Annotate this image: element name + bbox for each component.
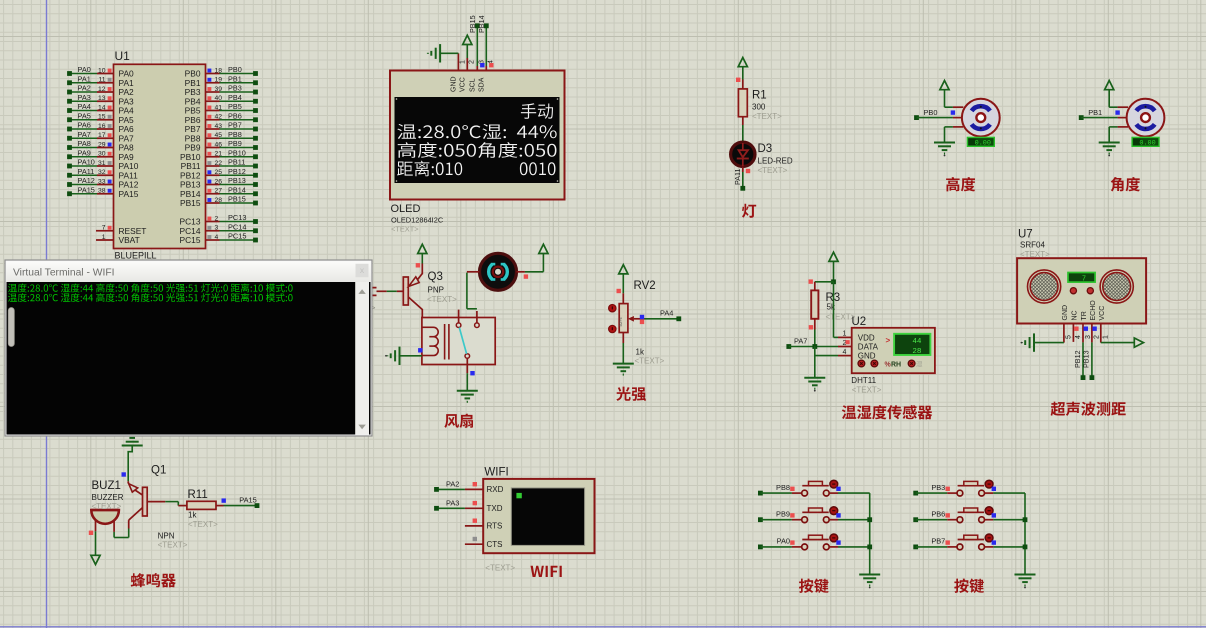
svg-text:14: 14 [98, 104, 106, 111]
resistor R11 [187, 501, 216, 509]
Q1 emitter arrow [129, 484, 143, 495]
svg-text:17: 17 [98, 132, 106, 139]
label U1 [115, 49, 131, 63]
svg-text:PA1: PA1 [78, 74, 91, 83]
label Q1 [151, 465, 166, 477]
label RV2 1k [636, 348, 645, 357]
U7 pin GND (5) [1062, 305, 1073, 339]
U1 pin PA9 (30) [67, 148, 134, 162]
svg-text:PB10: PB10 [228, 148, 246, 157]
wire relay coil to ground [400, 348, 423, 356]
svg-text:22: 22 [215, 160, 223, 167]
svg-text:PA3: PA3 [446, 499, 459, 508]
motor rpm display [967, 137, 994, 147]
svg-text:PA12: PA12 [78, 176, 95, 185]
U1 pin PC13 (2) [180, 213, 258, 227]
label BUZZER [92, 493, 124, 502]
wire gnd to Q1 emitter [122, 446, 133, 484]
virtual terminal close button [356, 264, 369, 278]
relay coil [422, 327, 438, 355]
svg-text:RXD: RXD [487, 485, 504, 494]
virtual terminal window frame [5, 260, 372, 436]
svg-text:2: 2 [469, 60, 476, 64]
svg-text:45: 45 [215, 132, 223, 139]
svg-text:PA4: PA4 [660, 309, 673, 318]
svg-text:7: 7 [1082, 275, 1086, 283]
U2 display [886, 334, 931, 356]
label DHT11 [851, 376, 876, 385]
label 按键 [954, 579, 984, 594]
terminal text line2 [8, 293, 293, 302]
svg-text:WIFI: WIFI [484, 467, 508, 479]
terminal left tab [8, 308, 14, 347]
ground U2 [804, 378, 825, 392]
svg-text:32: 32 [98, 169, 106, 176]
resistor R3 [809, 282, 819, 330]
ground relay coil [385, 347, 399, 365]
label WIFI red [531, 566, 562, 577]
U2 pin VDD (1) [838, 331, 875, 343]
resistor R1 [738, 89, 747, 117]
terminal text line1 [8, 284, 293, 293]
svg-text:PA15: PA15 [78, 185, 95, 194]
motor power arrow [1105, 81, 1128, 108]
power junction [831, 279, 836, 284]
svg-text:42: 42 [215, 114, 223, 121]
label R3 5k [827, 303, 836, 312]
buzzer BUZ1 [91, 510, 119, 524]
svg-text:38: 38 [98, 188, 106, 195]
motor body 角度 [1127, 99, 1165, 137]
svg-text:PB15: PB15 [468, 15, 477, 33]
U1 pin PA1 (11) [67, 74, 134, 88]
label NPN [158, 532, 175, 541]
svg-text:U2: U2 [852, 316, 867, 328]
label R1 [752, 90, 767, 102]
svg-text:PC13: PC13 [228, 213, 247, 222]
U1 pin PB9 (46) [185, 139, 258, 153]
ground RV2 [613, 364, 634, 375]
oled screen [395, 97, 560, 183]
push button PB6 [913, 507, 1025, 523]
wire PA7 [786, 337, 838, 349]
transistor Q1 bar [143, 487, 148, 516]
U1 pin PA10 (31) [67, 158, 139, 172]
U1 pin PA3 (13) [67, 93, 134, 107]
oled pin4 SDA wire PB14 [477, 15, 495, 92]
U1 pin PA8 (29) [67, 139, 134, 153]
push button PB9 [758, 507, 870, 523]
label R11 1k [188, 511, 197, 520]
push button PB7 [913, 534, 1025, 550]
svg-text:27: 27 [215, 188, 223, 195]
label 按键 [799, 579, 829, 594]
ground fan relay [457, 391, 478, 402]
label R3 TEXT [826, 313, 856, 322]
U1 pin PB7 (43) [185, 121, 258, 135]
svg-text:PB7: PB7 [228, 121, 242, 130]
oled text line1 手动 [521, 103, 553, 119]
svg-text:PB14: PB14 [228, 185, 246, 194]
svg-text:PB1: PB1 [1088, 108, 1102, 117]
svg-text:VBAT: VBAT [119, 235, 140, 245]
svg-text:3: 3 [1085, 335, 1092, 339]
svg-text:4: 4 [215, 234, 219, 241]
svg-text:NPN: NPN [158, 532, 175, 541]
virtual terminal scrollbar [356, 282, 370, 435]
motor power arrow [940, 81, 963, 108]
svg-text:28: 28 [215, 197, 223, 204]
svg-text:GND: GND [1062, 305, 1069, 321]
svg-text:<TEXT>: <TEXT> [391, 225, 419, 234]
wifi pin TXD [434, 499, 503, 514]
relay switch arm [459, 328, 466, 354]
button bus wire [867, 493, 872, 574]
U1 pin PA0 (10) [67, 65, 134, 79]
svg-text:PA0: PA0 [777, 537, 790, 546]
svg-text:LED-RED: LED-RED [758, 157, 793, 166]
svg-text:PNP: PNP [428, 286, 444, 295]
U7 pin VCC (1) [1099, 306, 1110, 339]
svg-text:21: 21 [215, 151, 223, 158]
label 温湿度传感器 [842, 405, 933, 419]
svg-text:CTS: CTS [487, 540, 503, 549]
svg-text:PA5: PA5 [78, 111, 91, 120]
RV2 bottom wire [622, 333, 624, 364]
svg-text:2: 2 [1094, 335, 1101, 339]
svg-text:PA4: PA4 [78, 102, 91, 111]
label RV2 TEXT [635, 357, 665, 366]
svg-text:NC: NC [1072, 310, 1079, 320]
label U2 TEXT [852, 386, 882, 395]
ground motor [1099, 143, 1120, 157]
svg-text:2: 2 [215, 215, 219, 222]
svg-text:<TEXT>: <TEXT> [852, 386, 882, 395]
svg-text:PA15: PA15 [239, 496, 257, 505]
U1 pin PB12 (25) [180, 167, 258, 181]
label 风扇 [444, 414, 473, 428]
U1 pin PB4 (40) [185, 93, 258, 107]
wire junction to R3 [809, 279, 834, 283]
RV2 wiper + wire PA4 [628, 309, 681, 325]
svg-text:<TEXT>: <TEXT> [485, 564, 515, 573]
U7 right transducer [1100, 270, 1133, 303]
push button PB8 [758, 480, 870, 496]
ground buzzer top [122, 433, 143, 446]
U7 display [1068, 273, 1095, 284]
svg-text:SDA: SDA [479, 77, 486, 92]
push button PB3 [913, 480, 1025, 496]
svg-text:13: 13 [98, 95, 106, 102]
U1 pin PA15 (38) [67, 185, 139, 199]
svg-text:PB6: PB6 [228, 111, 242, 120]
oled text line2 温:28.0℃湿: 44% [397, 124, 556, 139]
dht U2 body [852, 328, 935, 373]
U1 pin PA11 (32) [67, 167, 138, 181]
svg-text:PB9: PB9 [776, 510, 790, 519]
svg-text:BUZZER: BUZZER [92, 493, 124, 502]
motor body 高度 [962, 99, 1000, 137]
svg-text:1: 1 [843, 331, 847, 338]
U1 pin PB6 (42) [185, 111, 258, 125]
svg-text:PA2: PA2 [446, 480, 459, 489]
svg-text:PB12: PB12 [228, 167, 246, 176]
oled pin1 GND stub [451, 53, 467, 92]
svg-text:GND: GND [858, 352, 876, 361]
ground buttons [859, 575, 880, 589]
svg-text:4: 4 [843, 349, 847, 356]
U1 pin PB1 (19) [185, 74, 258, 88]
svg-text:43: 43 [215, 123, 223, 130]
U1 pin PB14 (27) [180, 185, 258, 199]
oled text line3 高度:050角度:050 [398, 142, 557, 158]
svg-text:PA10: PA10 [78, 158, 95, 167]
svg-text:PB8: PB8 [228, 130, 242, 139]
label 蜂鸣器 [131, 573, 176, 587]
U7 pin stubs [1064, 324, 1101, 343]
svg-text:31: 31 [98, 160, 106, 167]
svg-text:BUZ1: BUZ1 [92, 480, 121, 492]
svg-text:BLUEPILL: BLUEPILL [115, 251, 157, 261]
label oled TEXT [391, 225, 419, 234]
svg-text:25: 25 [215, 169, 223, 176]
push button PA0 [758, 534, 870, 550]
label 灯 [742, 204, 756, 218]
U7 gnd wire [1034, 342, 1064, 344]
svg-text:7: 7 [102, 225, 106, 232]
U1 pin VBAT (1) [96, 234, 140, 245]
svg-text:PB9: PB9 [228, 139, 242, 148]
svg-text:PA9: PA9 [78, 148, 91, 157]
svg-text:PB12: PB12 [1073, 350, 1082, 368]
label SRF04 [1020, 241, 1045, 250]
svg-text:OLED: OLED [391, 203, 421, 215]
wire GND down [815, 347, 838, 378]
Q3 emitter arrow [409, 274, 423, 287]
svg-text:PA6: PA6 [78, 121, 91, 130]
Q3 emitter wire + power [416, 244, 427, 274]
button bus wire [1023, 493, 1028, 574]
U2 pin GND (4) [838, 349, 876, 361]
Q3 collector [408, 297, 422, 318]
grey chevron [371, 303, 376, 313]
RV2 error circles [609, 305, 616, 333]
svg-text:DATA: DATA [858, 343, 879, 352]
svg-text:<TEXT>: <TEXT> [758, 166, 788, 175]
wifi body [483, 479, 594, 553]
oled body [390, 71, 565, 200]
U1 pin PB5 (41) [185, 102, 258, 116]
svg-text:PA7: PA7 [794, 337, 807, 346]
label OLED [391, 203, 421, 215]
svg-text:PC15: PC15 [228, 232, 247, 241]
U1 pin PA5 (15) [67, 111, 134, 125]
svg-text:PA8: PA8 [78, 139, 91, 148]
svg-text:RTS: RTS [487, 522, 503, 531]
svg-text:<TEXT>: <TEXT> [92, 502, 122, 511]
power arrow down buzzer [91, 555, 100, 565]
label 高度 [946, 177, 975, 191]
U1 pin PB11 (22) [181, 158, 258, 172]
wifi screen [511, 488, 584, 546]
U7 TR wire PB12 [1073, 342, 1086, 380]
svg-text:<TEXT>: <TEXT> [158, 541, 188, 550]
svg-text:PA3: PA3 [78, 93, 91, 102]
wire Q1 base to R11 [147, 502, 187, 506]
motor rpm display [1132, 137, 1159, 147]
U1 pin PB8 (45) [185, 130, 258, 144]
svg-text:<TEXT>: <TEXT> [752, 112, 782, 121]
svg-text:PB13: PB13 [228, 176, 246, 185]
wire R1 to D3 [742, 117, 744, 143]
svg-text:PB5: PB5 [228, 102, 242, 111]
wire PB0 to motor [914, 108, 962, 120]
label 光强 [616, 387, 646, 401]
wire D3 to PA11 [733, 167, 750, 191]
U1 pin PA2 (12) [67, 84, 134, 98]
wire relay to ground [467, 371, 474, 391]
svg-text:RV2: RV2 [634, 280, 656, 292]
svg-text:30: 30 [98, 151, 106, 158]
label PNP [428, 286, 444, 295]
svg-text:52%: 52% [618, 317, 623, 326]
Q1 collector [129, 508, 143, 538]
svg-text:ECHO: ECHO [1090, 300, 1097, 321]
svg-text:VCC: VCC [460, 77, 467, 92]
ground motor [934, 143, 955, 157]
svg-text:PA11: PA11 [78, 167, 95, 176]
wire fan to relay [467, 273, 477, 309]
label U7 [1018, 229, 1033, 241]
svg-text:SCL: SCL [470, 78, 477, 92]
oled gnd symbol [428, 44, 459, 62]
ultrasonic U7 body [1017, 258, 1146, 323]
svg-text:PB0: PB0 [228, 65, 242, 74]
svg-text:Q3: Q3 [428, 271, 443, 283]
svg-text:46: 46 [215, 141, 223, 148]
U1 pin PA7 (17) [67, 130, 134, 144]
U1 pin PA12 (33) [67, 176, 139, 190]
motor gnd wire [945, 127, 964, 143]
svg-text:VCC: VCC [1099, 306, 1106, 321]
svg-text:PA7: PA7 [78, 130, 91, 139]
svg-text:PB1: PB1 [228, 74, 242, 83]
label D3 [758, 143, 773, 155]
label U2 [852, 316, 867, 328]
svg-text:11: 11 [98, 77, 105, 84]
svg-text:12: 12 [98, 86, 106, 93]
svg-text:U7: U7 [1018, 229, 1033, 241]
svg-text:28: 28 [912, 348, 922, 356]
svg-text:1k: 1k [636, 348, 645, 357]
label BUZ1 TEXT [92, 502, 122, 511]
RV2 power arrow [617, 265, 628, 304]
svg-text:19: 19 [215, 77, 223, 84]
svg-text:VDD: VDD [858, 333, 875, 342]
U7 pin NC (4) [1072, 310, 1083, 339]
svg-text:5k: 5k [827, 303, 836, 312]
svg-text:PB8: PB8 [776, 483, 790, 492]
label OLED12864I2C [391, 216, 444, 225]
svg-text:300: 300 [752, 103, 766, 112]
label RV2 [634, 280, 656, 292]
fan left wire [467, 271, 480, 273]
DHT power arrow [829, 252, 838, 282]
led D3 [731, 142, 755, 166]
wifi pin CTS [465, 537, 503, 549]
svg-text:PB11: PB11 [228, 158, 245, 167]
wire R11 to PA15 [216, 496, 259, 509]
svg-text:PA15: PA15 [119, 189, 139, 199]
terminal bracket from VT [371, 288, 376, 296]
svg-text:TXD: TXD [487, 504, 503, 513]
motor gnd wire [1109, 127, 1128, 143]
svg-text:PA2: PA2 [78, 84, 91, 93]
svg-text:PC15: PC15 [180, 235, 201, 245]
svg-text:D3: D3 [758, 143, 773, 155]
relay switch contacts [456, 323, 479, 358]
U7 pin TR (3) [1081, 311, 1092, 339]
svg-text:5: 5 [1066, 335, 1073, 339]
svg-text:<TEXT>: <TEXT> [427, 295, 457, 304]
U1 pin PB10 (21) [180, 148, 258, 162]
virtual terminal screen [7, 282, 371, 435]
svg-text:PB3: PB3 [931, 483, 945, 492]
label Q3 TEXT [427, 295, 457, 304]
svg-text:PB15: PB15 [228, 195, 246, 204]
svg-text:1: 1 [460, 60, 467, 64]
U1 pin PC14 (3) [180, 222, 258, 236]
svg-text:33: 33 [98, 178, 106, 185]
svg-text:3: 3 [215, 225, 219, 232]
svg-text:1: 1 [1103, 335, 1110, 339]
U1 pin PB0 (18) [185, 65, 258, 79]
U1 pin PB3 (39) [185, 84, 258, 98]
label BUZ1 [92, 480, 121, 492]
svg-text:PB6: PB6 [931, 510, 945, 519]
U2 leds %RH [858, 360, 922, 368]
U1 pin PB15 (28) [180, 195, 258, 209]
relay body [422, 318, 495, 365]
svg-text:Virtual Terminal - WIFI: Virtual Terminal - WIFI [13, 268, 114, 279]
svg-text:DHT11: DHT11 [851, 376, 876, 385]
wifi pin RXD [434, 480, 504, 495]
potentiometer RV2 body [618, 304, 628, 333]
label 超声波测距 [1051, 402, 1126, 416]
label U7 TEXT [1020, 250, 1050, 259]
svg-text:PA0: PA0 [78, 65, 91, 74]
svg-text:40: 40 [215, 95, 223, 102]
U1 pin PC15 (4) [180, 232, 258, 246]
svg-text:18: 18 [215, 67, 223, 74]
label Q1 TEXT [158, 541, 188, 550]
svg-text:<TEXT>: <TEXT> [188, 520, 218, 529]
wire VDD [834, 282, 839, 338]
svg-text:<TEXT>: <TEXT> [635, 357, 665, 366]
svg-text:4: 4 [1075, 335, 1082, 339]
svg-text:PB13: PB13 [1082, 350, 1091, 368]
svg-text:Q1: Q1 [151, 465, 166, 477]
svg-text:10: 10 [98, 67, 106, 74]
label WIFI top [484, 467, 508, 479]
wire R3 to PA7 node [814, 330, 816, 347]
svg-text:GND: GND [451, 76, 458, 92]
R1 power arrow [736, 58, 747, 89]
svg-text:RH: RH [891, 361, 901, 368]
U1 pin PA6 (16) [67, 121, 134, 135]
U7 leds [1070, 288, 1093, 294]
fan right wire + power [517, 244, 549, 278]
